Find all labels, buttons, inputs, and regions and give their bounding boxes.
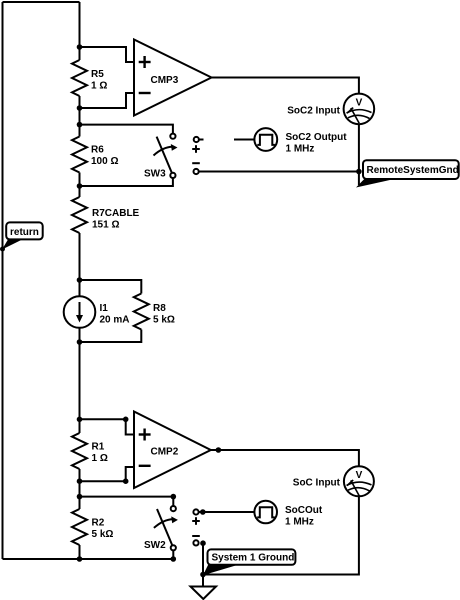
svg-text:1 MHz: 1 MHz (286, 144, 315, 155)
wire SW3 bottom lead (80, 178, 173, 186)
svg-text:R6: R6 (91, 145, 104, 156)
svg-text:R1: R1 (92, 442, 105, 453)
voltage source SoC2 Output label (286, 132, 348, 155)
svg-text:System 1 Ground: System 1 Ground (212, 553, 295, 564)
node R6 top junction (77, 122, 83, 128)
svg-text:100 Ω: 100 Ω (91, 156, 118, 167)
node SoCOut minus junction (200, 540, 206, 546)
wire left rail (2, 2, 4, 559)
node SoCOut minus terminal (193, 540, 198, 545)
wire CMP3 output (212, 78, 359, 94)
svg-text:SoCOut: SoCOut (285, 505, 323, 516)
net flag RemoteSystemGnd label (367, 165, 459, 176)
wire CMP3 plus input (80, 47, 135, 62)
svg-text:20 mA: 20 mA (100, 315, 130, 326)
voltmeter SoC Input label (293, 478, 341, 489)
svg-text:5 kΩ: 5 kΩ (153, 315, 175, 326)
op-amp CMP3 plus mark (139, 56, 151, 68)
op-amp CMP2 (134, 412, 211, 489)
voltmeter SoC2 Input (344, 94, 375, 125)
wire SW3 top lead (80, 125, 173, 134)
wire SW2 top lead (80, 497, 174, 506)
wire bottom rail (3, 558, 174, 560)
svg-text:SoC Input: SoC Input (293, 478, 341, 489)
resistor R8 value label (153, 303, 175, 326)
wire voltmeter SoC Input to ground junction (203, 496, 359, 574)
wire top rail (3, 1, 80, 3)
wire SW2 bottom lead (172, 550, 174, 559)
op-amp CMP2 minus mark (139, 465, 151, 467)
svg-text:1 Ω: 1 Ω (91, 81, 107, 92)
net flag return tail (2, 239, 24, 250)
resistor R7CABLE (72, 197, 87, 233)
svg-text:SoC2 Output: SoC2 Output (286, 132, 348, 143)
wire minus terminal to ground (202, 543, 204, 586)
resistor R6 value label (91, 145, 118, 168)
current source I1 (64, 296, 96, 328)
resistor R5 value label (91, 69, 107, 92)
svg-text:return: return (10, 227, 39, 238)
node R6 bottom junction (77, 183, 83, 189)
svg-text:R7CABLE: R7CABLE (92, 208, 140, 219)
op-amp CMP3 minus mark (139, 92, 151, 94)
node R5 bottom junction (77, 105, 83, 111)
wire main bus top segment (79, 2, 81, 60)
switch SW3 actuator arrow (154, 144, 178, 156)
svg-text:SW3: SW3 (144, 169, 166, 180)
node R2 top junction (77, 494, 83, 500)
node R1 bottom junction (77, 478, 83, 484)
switch SW2 bottom terminal (171, 545, 176, 550)
node plus polarity mark lower (192, 517, 200, 525)
wire bus R1 to R2 (79, 469, 81, 509)
svg-text:151 Ω: 151 Ω (92, 220, 119, 231)
svg-text:V: V (356, 470, 363, 481)
wire SoCOut lead (199, 511, 255, 513)
wire bus R2 to bottom rail (79, 545, 81, 559)
wire minus terminal to RemoteSystemGnd (199, 171, 359, 173)
ground symbol (191, 587, 217, 600)
node CMP2 output junction (216, 447, 222, 453)
node minus polarity mark (192, 162, 200, 164)
net flag return box (6, 222, 43, 239)
net flag RemoteSystemGnd box (363, 160, 459, 179)
node SoC2 output plus terminal (194, 137, 199, 142)
svg-text:1 MHz: 1 MHz (285, 517, 314, 528)
node I1 top junction (77, 277, 83, 283)
svg-text:R8: R8 (153, 303, 166, 314)
node minus polarity mark lower (192, 535, 200, 537)
wire voltmeter to ground rail (358, 124, 360, 171)
wire I1 R8 bottom rail (80, 330, 142, 343)
resistor R8 (134, 294, 149, 330)
voltmeter SoC2 Input label (287, 106, 340, 117)
svg-text:R5: R5 (91, 69, 104, 80)
node CMP2 minus corner (123, 478, 129, 484)
node SW2 bottom junction (171, 556, 177, 562)
svg-text:CMP3: CMP3 (151, 75, 179, 86)
switch SW2 top terminal (171, 506, 176, 511)
wire bus R6 to R7 (79, 173, 81, 198)
node System 1 Ground junction (200, 572, 206, 578)
voltage source SoCOut label (285, 505, 323, 528)
current source I1 value label (100, 303, 130, 326)
resistor R7CABLE value label (92, 208, 140, 231)
svg-text:1 Ω: 1 Ω (92, 453, 108, 464)
wire CMP2 minus input (80, 467, 135, 481)
net flag RemoteSystemGnd tail (356, 178, 392, 187)
wire CMP2 plus input (80, 419, 135, 434)
node I1 bottom junction (77, 339, 83, 345)
svg-text:CMP2: CMP2 (151, 447, 179, 458)
voltage source SoC2 Output square wave glyph (257, 135, 275, 145)
svg-text:V: V (356, 98, 363, 109)
net flag return label (10, 227, 39, 238)
wire bus R5 to R6 (79, 96, 81, 137)
svg-text:SW2: SW2 (144, 540, 166, 551)
node SW2 top corner (171, 494, 177, 500)
switch SW2 actuator arrow (154, 516, 178, 528)
switch SW3 top terminal (170, 134, 175, 139)
voltmeter SoC Input V mark (356, 470, 363, 481)
net flag System 1 Ground box (208, 549, 296, 564)
wire I1 R8 top rail (80, 280, 142, 294)
net flag System 1 Ground tail (203, 564, 239, 575)
svg-text:I1: I1 (100, 303, 109, 314)
switch SW2 blade (157, 509, 172, 545)
svg-text:R2: R2 (92, 518, 105, 529)
wire plus terminal tick (199, 139, 203, 141)
current source I1 arrow (76, 302, 83, 323)
node R2 bottom junction (77, 556, 83, 562)
node SoCOut plus terminal (193, 509, 198, 514)
voltmeter SoC Input (344, 466, 374, 496)
node SoC2 output minus terminal (194, 169, 199, 174)
resistor R1 value label (92, 442, 108, 465)
switch SW3 blade (157, 137, 172, 173)
wire RemoteSystemGnd stub (358, 172, 360, 186)
wire CMP3 minus input (80, 93, 135, 108)
voltmeter SoC2 Input face (347, 108, 372, 124)
voltage source SoC2 Output (254, 128, 277, 151)
resistor R5 (72, 60, 87, 96)
node return junction (0, 247, 5, 252)
node R1 top junction (77, 417, 83, 423)
switch SW2 label (144, 540, 166, 551)
op-amp CMP2 plus mark (139, 429, 151, 441)
net flag System 1 Ground label (212, 553, 295, 564)
op-amp CMP3 (134, 40, 212, 116)
switch SW3 bottom terminal (170, 173, 175, 178)
svg-text:5 kΩ: 5 kΩ (92, 529, 114, 540)
node plus polarity mark (192, 145, 200, 153)
node RemoteSystemGnd junction (356, 169, 362, 175)
svg-text:RemoteSystemGnd: RemoteSystemGnd (367, 165, 459, 176)
resistor R1 (72, 433, 87, 469)
voltage source SoCOut (254, 501, 277, 524)
resistor R2 (72, 509, 87, 545)
op-amp CMP3 label (151, 75, 179, 86)
wire bus R7 to I1 (79, 233, 81, 296)
voltage source SoC2 Output lead (234, 139, 254, 141)
wire CMP2 output (211, 450, 359, 466)
resistor R6 (72, 137, 87, 173)
resistor R2 value label (92, 518, 114, 541)
switch SW3 label (144, 169, 166, 180)
svg-text:SoC2 Input: SoC2 Input (287, 106, 340, 117)
node CMP2 plus corner (123, 417, 129, 423)
voltmeter SoC2 Input V mark (356, 98, 363, 109)
wire bus I1 to R1 (79, 328, 81, 433)
op-amp CMP2 label (151, 447, 179, 458)
voltmeter SoC Input face (347, 480, 372, 496)
node R5 top junction (77, 44, 83, 50)
node SoCOut plus junction (200, 509, 206, 515)
voltage source SoCOut square wave glyph (257, 507, 275, 517)
